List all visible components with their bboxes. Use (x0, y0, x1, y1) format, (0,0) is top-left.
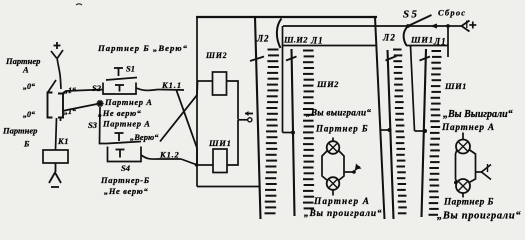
plus supply mark top-left (54, 42, 61, 49)
wire B2 down from label box (411, 46, 415, 132)
label ShI1 row2 (410, 35, 434, 45)
wiper arm bank L2-2 (386, 56, 397, 61)
join W2 to rail A2 (381, 129, 391, 131)
svg-text:ШИ1: ШИ1 (410, 35, 434, 45)
label Partner B (2, 126, 37, 149)
antenna Y switch stem (51, 50, 63, 89)
label Vy vyigrali group1 (306, 108, 371, 118)
contact ticks bank L2-1 (265, 50, 280, 214)
contact ticks bank L1-1 (303, 51, 314, 209)
contact ticks bank L1-2 (429, 51, 442, 215)
wiper arm bank L1-2 (420, 57, 431, 61)
svg-text:„Верю“: „Верю“ (130, 132, 159, 142)
label Partner B group2 (443, 198, 494, 208)
switch S5 blade (408, 15, 432, 26)
switch SA bracket (DPDT common) (48, 93, 64, 122)
wiper arm bank L1-1 (286, 57, 297, 61)
svg-text:Партнер А: Партнер А (313, 197, 370, 207)
svg-text:„1“: „1“ (64, 86, 76, 95)
svg-text:S1: S1 (126, 64, 135, 74)
label Partner A (S2) (104, 97, 153, 107)
wiper tap group2 (476, 164, 492, 180)
label box1 bottom (283, 45, 377, 47)
stub below lamp group2 (462, 193, 464, 198)
connector fork (462, 21, 470, 32)
crossing wire upper to lower (177, 91, 198, 165)
junction lower node (195, 163, 199, 167)
top bus line (196, 16, 377, 18)
label Vy proigrali group2 (437, 211, 521, 222)
node asterisk junction (96, 100, 103, 107)
wire row1 to S2 (63, 90, 103, 94)
contact K1.2 line (157, 158, 181, 160)
label ShI1 inside group2 (444, 81, 467, 91)
rail bank L1-1 (292, 49, 295, 216)
rail bank L1-2 (422, 49, 427, 217)
contact K1.1 line (158, 89, 184, 92)
join wire B1 to rail C1 (283, 132, 294, 134)
chassis arrow symbol (49, 173, 61, 188)
label Ne veryu (S4) (104, 186, 148, 196)
junction dot reset (446, 24, 450, 28)
svg-text:„Не верю“: „Не верю“ (104, 186, 148, 196)
label Partner B Veryu (97, 43, 188, 53)
label S2 (92, 83, 102, 93)
rail L2 bank 1 (box right edge) (255, 17, 261, 219)
svg-text:Л1: Л1 (310, 36, 324, 46)
svg-text:К1: К1 (57, 136, 69, 146)
lamp L2 group1 (327, 177, 340, 190)
label S5 (403, 9, 419, 21)
plus label right (469, 22, 476, 29)
label Partner-B (S4) (100, 175, 150, 185)
label ShI2 coil (205, 51, 227, 60)
label 1 row1 (64, 86, 76, 95)
contact blade row1 (48, 80, 56, 92)
svg-text:Л1: Л1 (433, 37, 447, 47)
label K1 (57, 136, 69, 146)
label S4 (121, 163, 130, 173)
wire into ShI2 (197, 80, 213, 82)
svg-text:„0“: „0“ (23, 82, 35, 91)
junction dot C1 (291, 131, 295, 135)
lamp L1 group1 (327, 141, 340, 154)
svg-text:„Вы проиграли“: „Вы проиграли“ (437, 211, 521, 222)
label L2 group2 (382, 33, 396, 43)
rail L2 bank 2 (388, 50, 394, 219)
svg-text:S3: S3 (88, 120, 98, 130)
label L1 group2 (433, 37, 447, 47)
label L2 group1 (256, 34, 269, 44)
wire to plus connector (448, 25, 462, 27)
stub below lamp group1 (332, 190, 334, 196)
crossing wire lower to upper (160, 81, 198, 142)
label Partner B group1 (315, 124, 368, 134)
divider curve group1 labels (277, 19, 282, 49)
label box2 right edge (447, 26, 449, 57)
svg-text:ШИ2: ШИ2 (316, 79, 339, 89)
svg-text:S4: S4 (121, 163, 130, 173)
svg-text:Партнер А: Партнер А (104, 97, 153, 107)
junction dot loop group2 (454, 181, 458, 185)
wire K1.2 to lower node (181, 159, 196, 165)
label Vy proigrali group1 (304, 208, 382, 219)
label K1.1 (161, 80, 182, 90)
label Partner A (5, 56, 40, 75)
wire into ShI1 (197, 164, 213, 166)
lamp L4 group2 (456, 179, 470, 193)
svg-text:„Вы выиграли“: „Вы выиграли“ (306, 108, 371, 118)
svg-text:А: А (22, 65, 29, 75)
junction dot C2 (423, 129, 427, 133)
wire row2 to node asterisk (63, 104, 97, 111)
S2 contact box (103, 83, 136, 95)
svg-text:„Вы Выиграли“: „Вы Выиграли“ (443, 109, 513, 120)
wiper contact with circle (238, 111, 253, 122)
svg-text:S2: S2 (92, 83, 102, 93)
label Sh.I2 (283, 35, 308, 45)
ShI1 coil box (213, 149, 227, 173)
S3 contact line (107, 142, 141, 144)
button S3 actuator (115, 133, 124, 141)
speck tilde top (76, 4, 82, 5)
junction dot S5 (406, 24, 410, 28)
label Partner A group2 (441, 123, 495, 133)
junction dot A2 (388, 128, 392, 132)
lamp loop left side group1 (322, 151, 328, 181)
label ShI2 inside group1 (316, 79, 339, 89)
label Sbros (438, 8, 466, 18)
lamp loop left side group2 (456, 150, 458, 183)
svg-text:Партнер А: Партнер А (102, 119, 151, 129)
wire S4 box to K1.2 (141, 155, 157, 159)
svg-text:S5: S5 (403, 9, 419, 21)
wire K1 to chassis arrow (55, 163, 57, 172)
wire B1 from label box down (282, 26, 284, 133)
svg-text:Партнер Б: Партнер Б (315, 124, 368, 134)
svg-text:ШИ1: ШИ1 (208, 138, 232, 148)
long wire W2 (375, 17, 385, 219)
label Ne veryu (S2) (98, 108, 142, 118)
label Partner A group1 (313, 197, 370, 207)
label K1.2 (159, 150, 180, 160)
label 0 row1 (23, 82, 35, 91)
svg-text:ШИ2: ШИ2 (205, 51, 227, 60)
wire bracket bottom to relay K1 (56, 118, 57, 150)
label Partner A (S3) (102, 119, 151, 129)
wiper tap group1 (344, 164, 362, 174)
svg-text:Л2: Л2 (256, 34, 269, 44)
svg-text:К1.2: К1.2 (159, 150, 180, 160)
wire S2 box to K1.1 (136, 88, 158, 90)
svg-text:Партнер-Б: Партнер-Б (100, 175, 150, 185)
stub above lamp group2 (462, 133, 464, 141)
svg-text:Ш.И2: Ш.И2 (283, 35, 308, 45)
svg-text:Партнер Б „Верю“: Партнер Б „Верю“ (97, 43, 188, 53)
label Veryu (S3) (130, 132, 159, 142)
button S2 actuator inside box (115, 85, 124, 92)
wire ShI2 out right and down (227, 81, 239, 120)
label ShI1 coil (208, 138, 232, 148)
label Vy Vyigrali group2 (443, 109, 513, 120)
svg-text:ШИ1: ШИ1 (444, 81, 467, 91)
svg-text:Б: Б (23, 139, 30, 149)
wire ShI1 out right and up (227, 120, 238, 165)
label L1 group1 (310, 36, 324, 46)
label S3 (88, 120, 98, 130)
lamp loop right side group2 (469, 150, 476, 183)
label box2 bottom (406, 45, 448, 47)
label S1 (126, 64, 135, 74)
join wire B2 to rail C2 (415, 130, 426, 132)
ShI2 coil box (213, 72, 227, 95)
main box bottom edge (197, 186, 259, 188)
button S4 actuator inside box (116, 150, 125, 158)
label 1 row2 (64, 107, 76, 116)
svg-text:Партнер Б: Партнер Б (443, 198, 494, 208)
main box left edge (196, 17, 198, 187)
svg-text:Партнер А: Партнер А (441, 123, 495, 133)
button S1 actuator (114, 68, 123, 76)
lamp loop right side group1 (339, 151, 345, 181)
contact ticks bank L2-2 (393, 50, 407, 214)
divider curve group2 labels (404, 27, 408, 46)
label 0 row2 (23, 110, 35, 119)
svg-text:Партнер: Партнер (2, 126, 37, 136)
svg-text:„Вы проиграли“: „Вы проиграли“ (304, 208, 382, 219)
S4 contact box (108, 147, 142, 162)
svg-text:Л2: Л2 (382, 33, 396, 43)
wire asterisk down to S3 row (100, 107, 108, 144)
wiper arm bank L2-1 (250, 57, 264, 62)
svg-text:„0“: „0“ (23, 110, 35, 119)
stub above lamp L1a (332, 138, 334, 142)
svg-text:„1“: „1“ (64, 107, 76, 116)
svg-text:„Не верю“: „Не верю“ (98, 108, 142, 118)
S1 contact line (106, 78, 137, 81)
svg-text:К1.1: К1.1 (161, 80, 182, 90)
label row line y26 (283, 25, 448, 27)
arrowhead on bus pointing left (430, 24, 437, 29)
lamp L3 group2 (456, 140, 470, 154)
relay coil K1 (43, 150, 68, 163)
svg-text:Сброс: Сброс (438, 8, 466, 18)
